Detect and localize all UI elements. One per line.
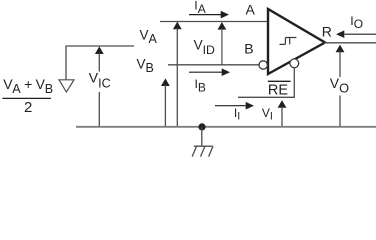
wire: input B line: [168, 64, 259, 66]
svg-text:VIC: VIC: [89, 70, 111, 91]
ground: [192, 127, 213, 157]
arrow IB (input current B): [189, 68, 230, 76]
hysteresis symbol inside triangle: [280, 38, 297, 45]
arrow VB (B-to-ground voltage): [161, 78, 170, 126]
wire: vertical drop to source arrowhead: [65, 46, 67, 80]
svg-text:B: B: [244, 40, 253, 56]
svg-text:VI: VI: [262, 106, 273, 123]
arrow VIC (common-mode voltage): [95, 46, 104, 126]
svg-text:VB: VB: [137, 56, 154, 75]
arrow IO (output current): [336, 30, 376, 38]
wire: input A line: [160, 21, 267, 23]
svg-text:VO: VO: [330, 75, 349, 96]
wire: common ground rail: [76, 126, 376, 128]
svg-text:II: II: [234, 106, 240, 123]
arrow VO (output voltage): [336, 45, 345, 126]
arrow IA (input current A): [189, 11, 229, 19]
svg-text:R: R: [322, 24, 332, 40]
op-amp U1: receiver triangle: [268, 9, 325, 74]
inverting bubble on B input: [259, 61, 267, 69]
inverting bubble on RE enable pin: [290, 59, 299, 68]
svg-text:IB: IB: [195, 77, 206, 94]
wire: RE enable pin: [238, 68, 294, 98]
svg-text:IA: IA: [194, 0, 205, 16]
arrow VI (enable voltage): [278, 100, 287, 126]
svg-text:IO: IO: [350, 14, 363, 31]
wire: common-mode mid line: [65, 45, 134, 47]
arrow VID (differential voltage A-B): [218, 22, 227, 65]
label: fraction (VA+VB)/2: [2, 76, 53, 116]
svg-text:A: A: [246, 2, 256, 18]
svg-text:VA: VA: [140, 27, 158, 46]
svg-text:2: 2: [24, 99, 32, 116]
node: junction dot on rail: [198, 123, 205, 130]
svg-text:RE: RE: [268, 82, 288, 98]
arrow II (enable input current): [215, 102, 254, 110]
open triangle arrowhead of (VA+VB)/2 source: [59, 80, 74, 92]
arrow VA (A-to-ground voltage): [173, 22, 182, 126]
label RE (overlined): [268, 81, 291, 98]
svg-text:VID: VID: [194, 38, 215, 58]
wire: output R line: [324, 42, 376, 44]
svg-text:VA + VB: VA + VB: [3, 76, 53, 96]
